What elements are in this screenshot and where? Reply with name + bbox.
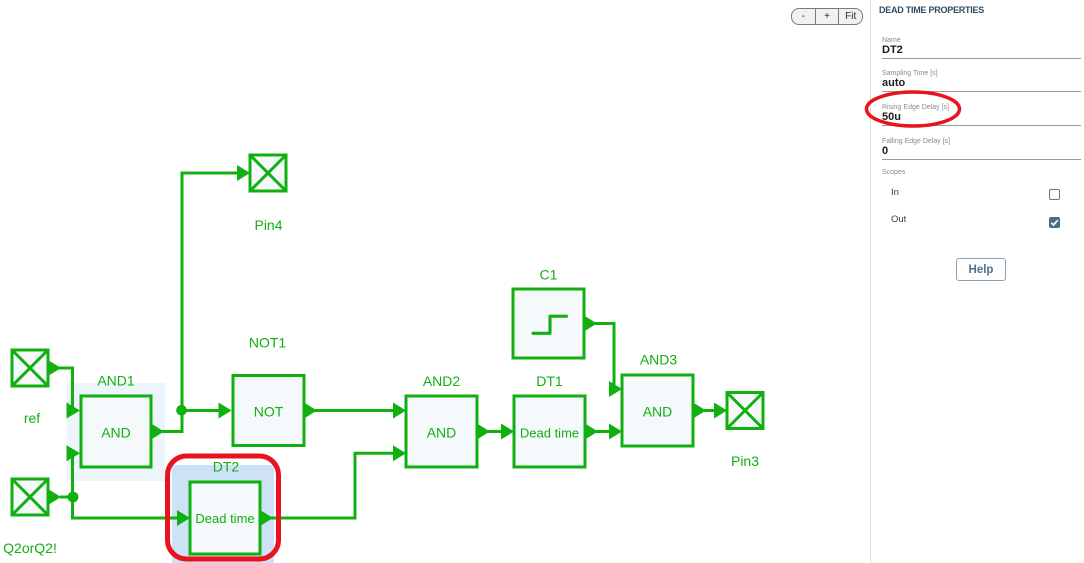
svg-text:AND: AND <box>643 404 673 420</box>
svg-text:AND3: AND3 <box>640 352 678 368</box>
svg-text:NOT: NOT <box>254 404 284 420</box>
svg-text:DT1: DT1 <box>536 373 563 389</box>
svg-text:AND2: AND2 <box>423 373 461 389</box>
svg-text:Pin4: Pin4 <box>254 217 282 233</box>
svg-text:AND: AND <box>427 425 457 441</box>
svg-text:AND: AND <box>101 425 131 441</box>
svg-text:Q2orQ2!: Q2orQ2! <box>3 540 57 556</box>
svg-text:AND1: AND1 <box>97 373 135 389</box>
svg-text:C1: C1 <box>540 267 558 283</box>
svg-text:Dead time: Dead time <box>520 425 579 440</box>
svg-text:Pin3: Pin3 <box>731 453 759 469</box>
svg-text:Dead time: Dead time <box>195 511 254 526</box>
svg-text:NOT1: NOT1 <box>249 335 287 351</box>
svg-text:ref: ref <box>24 410 40 426</box>
svg-text:DT2: DT2 <box>213 459 240 475</box>
